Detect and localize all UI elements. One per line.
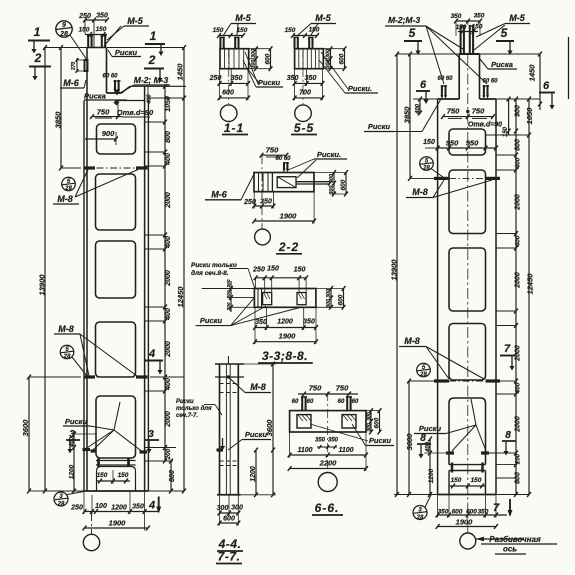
dimension 600 below 1-1 <box>220 97 249 99</box>
dimension 1900 at E2 bottom <box>438 526 496 528</box>
section 3-3 8-8 body <box>254 289 316 308</box>
svg-text:370: 370 <box>71 62 77 71</box>
dimension 750 to hole in E1 <box>92 116 122 118</box>
leader lines from lower M-8 to E2 riska level 2 <box>426 347 449 380</box>
svg-text:150: 150 <box>237 27 248 34</box>
anchor bolts M-2 M-3 on E2 right shoulder <box>483 85 485 97</box>
anchor stubs above section 6-6 right <box>346 396 348 411</box>
svg-text:400: 400 <box>70 436 76 448</box>
left extension lines of 3-3 <box>202 288 255 290</box>
dimension 350 350 above E2 <box>456 20 480 22</box>
svg-text:1: 1 <box>34 25 41 39</box>
svg-text:300: 300 <box>251 49 257 58</box>
svg-text:7: 7 <box>493 502 500 514</box>
svg-text:1100: 1100 <box>297 447 312 454</box>
svg-text:М-8: М-8 <box>250 382 266 392</box>
svg-text:300: 300 <box>367 423 373 432</box>
svg-text:700: 700 <box>299 90 311 97</box>
svg-text:28: 28 <box>419 372 427 378</box>
hatch of cut concrete in 3-3 <box>257 289 259 308</box>
svg-text:5: 5 <box>409 26 416 40</box>
axis tick above 4-4 top <box>227 356 229 364</box>
hole 1 in E2 <box>449 129 486 155</box>
svg-text:60: 60 <box>307 399 314 405</box>
svg-text:7: 7 <box>504 343 511 355</box>
dimension 750 on section 2-2 <box>262 154 287 156</box>
svg-text:300: 300 <box>329 174 335 183</box>
hole 5 in E2 <box>449 398 486 465</box>
svg-text:400: 400 <box>165 153 172 166</box>
section 1-1 body <box>220 49 249 69</box>
dimension line 3850 for E1 <box>60 48 62 169</box>
svg-text:28: 28 <box>64 186 72 192</box>
svg-text:200: 200 <box>165 448 172 460</box>
left column E1 outline (elevation) <box>87 47 107 49</box>
svg-text:600: 600 <box>338 294 345 305</box>
dimension 250 350 at E1 top <box>85 19 107 21</box>
dimensions 300 300 600 right of 1-1 <box>255 49 257 69</box>
svg-text:3600: 3600 <box>405 433 414 451</box>
hole 4 in E2 <box>449 324 486 381</box>
reference bubble 5/28 upper E2 <box>420 157 434 171</box>
riska level 1 marks on E2 <box>434 177 449 180</box>
hole 1 in E1 <box>97 124 136 154</box>
svg-text:М-5: М-5 <box>315 13 331 23</box>
dimension 350 1200 350 below 3-3 <box>255 327 316 329</box>
svg-text:1200: 1200 <box>428 468 435 483</box>
svg-text:300: 300 <box>367 412 373 421</box>
dimensions 300 300 600 right of 6-6 <box>370 411 372 432</box>
svg-text:12450: 12450 <box>526 273 535 295</box>
hole 4 in E1 <box>96 322 136 377</box>
svg-text:400: 400 <box>165 236 172 249</box>
svg-text:5: 5 <box>501 26 508 40</box>
riska marks at bottom of E1 branches <box>83 448 91 451</box>
embedded channel M-6 in section 2-2 <box>277 177 296 188</box>
svg-text:сеч.7-7.: сеч.7-7. <box>176 413 198 419</box>
svg-text:300: 300 <box>326 289 332 298</box>
riska diamond mark on E1 console <box>114 89 120 95</box>
svg-text:8: 8 <box>505 430 511 441</box>
svg-text:2000: 2000 <box>515 272 522 289</box>
svg-text:600: 600 <box>374 417 381 428</box>
dimension 150 150 between E2 branches <box>449 485 486 487</box>
svg-text:250: 250 <box>78 13 91 20</box>
section 5-5 body <box>295 49 324 69</box>
svg-text:600: 600 <box>223 516 235 523</box>
svg-text:950: 950 <box>446 139 459 148</box>
riska marks at bottom of E2 branches <box>446 451 454 454</box>
dashed lines near bottom of 4-4 <box>220 460 239 462</box>
svg-text:М-8: М-8 <box>412 187 428 197</box>
svg-text:1450: 1450 <box>176 63 185 81</box>
svg-text:300: 300 <box>326 299 332 308</box>
anchor stubs M-5 on E1 top <box>87 35 89 48</box>
svg-text:750: 750 <box>266 146 279 155</box>
svg-text:300: 300 <box>251 60 257 69</box>
hole 5 in E1 <box>96 396 136 458</box>
anchor box left in section 3-3 <box>263 293 272 305</box>
svg-text:2000: 2000 <box>515 194 522 211</box>
svg-text:60 60: 60 60 <box>482 79 498 85</box>
svg-text:350: 350 <box>287 75 299 82</box>
dimension 150 150 between E1 branches <box>96 480 130 482</box>
hole 3 in E2 <box>449 248 486 311</box>
leader fan to bottom riska marks of E2 <box>446 425 476 434</box>
extension lines right of E2 <box>496 98 540 100</box>
svg-text:750: 750 <box>472 107 485 116</box>
svg-text:300: 300 <box>326 49 332 58</box>
svg-text:150: 150 <box>309 27 320 34</box>
svg-text:150: 150 <box>267 266 279 273</box>
anchor box right in section 3-3 <box>297 293 306 305</box>
svg-text:1450: 1450 <box>528 64 537 82</box>
dimension line 1050 12450 for E2 <box>528 99 530 495</box>
reference bubble 9/28 <box>56 21 72 37</box>
dimension 3600 right of 4-4 <box>272 364 274 495</box>
svg-text:2000: 2000 <box>515 416 522 433</box>
svg-text:400: 400 <box>426 441 432 453</box>
hole d=90 mark in E1 <box>114 100 120 106</box>
svg-text:3850: 3850 <box>54 111 63 129</box>
dimension 600 below 4-4 <box>220 522 239 524</box>
dimension 150 150 at E1 top <box>85 34 107 36</box>
svg-text:350: 350 <box>474 13 485 20</box>
svg-text:250: 250 <box>252 267 265 274</box>
svg-text:150: 150 <box>451 477 462 484</box>
svg-text:400: 400 <box>165 378 172 391</box>
svg-text:600: 600 <box>466 509 477 516</box>
svg-text:2000: 2000 <box>165 192 172 209</box>
dimension line 1450 for E2 <box>539 54 541 110</box>
svg-text:250: 250 <box>70 505 83 512</box>
dimension 400 1200 at E2 bottom left <box>429 439 431 495</box>
svg-text:Риски: Риски <box>65 417 88 426</box>
anchor box right in section 6-6 <box>342 415 356 428</box>
bottom web lines of E1 <box>96 460 136 462</box>
reference bubble 5/28 upper E1 <box>62 177 76 191</box>
svg-text:300: 300 <box>326 60 332 69</box>
anchor box left in section 6-6 <box>297 415 311 428</box>
svg-text:1200: 1200 <box>69 464 76 479</box>
riska level 2 marks on E2 <box>434 379 449 382</box>
svg-text:М-8: М-8 <box>57 194 73 204</box>
dimension line 1450 12450 for E1 <box>183 48 185 492</box>
svg-text:1: 1 <box>150 29 157 43</box>
dimension 150 150 on section 1-1 <box>219 35 243 37</box>
reference bubble 5/28 lower E1 <box>60 345 74 359</box>
right column E2 outline (elevation) <box>459 53 479 55</box>
dimension 1900 at E1 bottom <box>84 527 148 529</box>
svg-text:60: 60 <box>292 399 299 405</box>
svg-text:9: 9 <box>62 22 66 29</box>
svg-text:200: 200 <box>516 453 522 465</box>
section 6-6 body <box>290 411 366 432</box>
svg-text:М-5: М-5 <box>235 13 251 23</box>
dimension 1200 right of 4-4 <box>255 450 257 495</box>
dimension 250 350 below 2-2 <box>254 205 273 207</box>
svg-text:600: 600 <box>452 509 463 516</box>
svg-text:М-8: М-8 <box>404 336 420 346</box>
hole 3 in E1 <box>96 241 136 298</box>
svg-text:350: 350 <box>255 319 267 326</box>
svg-text:60 60: 60 60 <box>102 74 118 80</box>
dimension 400 at E2 left shoulder <box>419 99 421 113</box>
svg-text:М-6: М-6 <box>63 78 79 88</box>
dimension row 250 100 1200 350 at E1 bottom <box>84 511 158 513</box>
svg-text:Разбивочная: Разбивочная <box>489 535 541 544</box>
reference bubble 3/28 at E1 bottom <box>54 492 68 506</box>
svg-text:300: 300 <box>217 505 229 512</box>
label Razbivochnaya os <box>476 538 524 540</box>
dimension row 350 600 600 350 at E2 bottom <box>438 514 507 516</box>
svg-text:Риски: Риски <box>419 424 442 433</box>
svg-text:4: 4 <box>148 500 155 512</box>
svg-text:1900: 1900 <box>279 332 297 341</box>
svg-text:60 60: 60 60 <box>437 76 453 82</box>
svg-text:350: 350 <box>451 13 462 20</box>
reference bubble 3/28 at E2 bottom <box>413 506 427 520</box>
svg-text:1900: 1900 <box>280 212 298 221</box>
svg-text:150: 150 <box>79 27 90 34</box>
svg-text:400: 400 <box>515 382 522 394</box>
svg-text:300: 300 <box>231 505 243 512</box>
svg-text:М-5: М-5 <box>127 16 143 26</box>
riska mark on column 4-4 <box>217 448 224 451</box>
dimension 800 at E1 bottom right <box>170 461 172 491</box>
svg-text:750: 750 <box>336 384 349 393</box>
right dimension chain of E1 <box>164 86 166 461</box>
svg-text:2000: 2000 <box>165 341 172 358</box>
axis line of section 2-2 <box>261 155 263 229</box>
svg-text:4: 4 <box>148 348 155 360</box>
dimension 750 750 above 6-6 <box>298 393 358 395</box>
svg-text:28: 28 <box>416 515 424 521</box>
dimension 370 300 at M-6 plate <box>76 58 78 72</box>
dimension 150 950 950 150 in E2 <box>438 147 496 149</box>
svg-text:Риска: Риска <box>84 92 106 101</box>
anchor stubs above section 6-6 left <box>301 396 303 411</box>
svg-text:400: 400 <box>515 157 522 169</box>
svg-text:6: 6 <box>420 79 427 91</box>
svg-text:750: 750 <box>447 107 460 116</box>
svg-text:2: 2 <box>34 51 42 65</box>
svg-text:ось: ось <box>503 545 517 554</box>
svg-text:950: 950 <box>466 139 479 148</box>
dimension 300 300 below 4-4 <box>220 512 239 514</box>
right dimension chain of E2 <box>515 99 517 495</box>
svg-text:М-6: М-6 <box>211 190 227 200</box>
svg-text:900: 900 <box>102 129 115 138</box>
svg-text:600: 600 <box>222 90 234 97</box>
left dimensions 300 200 of 3-3 <box>230 281 232 312</box>
axis circle of E1 <box>83 534 99 550</box>
svg-text:Риски: Риски <box>200 316 223 325</box>
svg-text:800: 800 <box>515 139 522 151</box>
dimension 700 below 5-5 <box>295 97 323 99</box>
svg-text:150: 150 <box>471 477 482 484</box>
svg-text:Риски.: Риски. <box>317 150 341 159</box>
svg-text:350: 350 <box>260 199 272 206</box>
leader lines M-2 M-3 to shoulder bolts of E2 <box>426 26 444 84</box>
hole 6 at E1 bottom <box>97 467 136 492</box>
svg-text:800: 800 <box>165 131 172 143</box>
dimension 400 and 1200 at E1 bottom <box>73 434 75 491</box>
svg-text:150: 150 <box>472 24 483 31</box>
leader fan from Riski to 3-3 anchors <box>231 298 255 326</box>
svg-text:1900: 1900 <box>109 519 127 528</box>
svg-text:1200: 1200 <box>111 505 127 512</box>
dimensions 300 300 600 right of 5-5 <box>330 49 332 69</box>
axis centerline of E2 <box>467 54 469 533</box>
svg-text:2000: 2000 <box>515 345 522 362</box>
hole 2 in E1 <box>96 174 136 230</box>
svg-text:350: 350 <box>231 75 243 82</box>
svg-text:350: 350 <box>303 319 315 326</box>
svg-text:350: 350 <box>96 13 108 20</box>
svg-text:350: 350 <box>315 438 326 444</box>
svg-text:1050: 1050 <box>165 96 172 112</box>
svg-text:350: 350 <box>132 504 144 511</box>
svg-text:1200: 1200 <box>277 319 293 326</box>
svg-text:28: 28 <box>422 166 430 172</box>
axis circle of section 1-1 <box>220 105 237 122</box>
svg-text:150: 150 <box>285 27 296 34</box>
dimension line 13900 for E1 <box>44 48 46 492</box>
svg-text:Отв.d=90: Отв.d=90 <box>117 108 154 117</box>
svg-text:800: 800 <box>169 470 176 482</box>
svg-text:150: 150 <box>118 472 129 479</box>
svg-text:200: 200 <box>226 290 232 299</box>
svg-text:28: 28 <box>57 502 65 508</box>
dimension 350 350 below 5-5 <box>295 82 323 84</box>
svg-text:150: 150 <box>96 26 107 33</box>
leader lines from M-8 to E2 riska level 1 <box>433 180 444 198</box>
svg-text:2000: 2000 <box>165 411 172 428</box>
svg-text:2: 2 <box>148 53 156 67</box>
svg-text:только для: только для <box>176 406 212 412</box>
svg-text:Риски.: Риски. <box>348 84 372 93</box>
svg-text:7-7.: 7-7. <box>218 550 241 564</box>
leader lines from lower M-8 to riska level 2 <box>80 334 89 376</box>
svg-text:2000: 2000 <box>165 270 172 287</box>
svg-text:150: 150 <box>294 267 306 274</box>
dimension 250 150 150 above 3-3 <box>256 277 307 279</box>
svg-text:600: 600 <box>339 53 346 64</box>
anchor stubs M-5 in section 1-1 <box>219 37 221 49</box>
svg-text:6: 6 <box>543 80 550 92</box>
hole d=90 mark in E2 <box>466 110 469 113</box>
svg-text:28: 28 <box>63 354 71 360</box>
svg-text:150: 150 <box>456 24 467 31</box>
svg-text:для сеч.8-8.: для сеч.8-8. <box>191 269 229 277</box>
anchor stubs M-5 in section 5-5 <box>293 37 295 49</box>
svg-text:28: 28 <box>59 31 68 38</box>
svg-text:1100: 1100 <box>338 447 353 454</box>
svg-text:3850: 3850 <box>403 106 412 124</box>
svg-text:1900: 1900 <box>456 518 474 527</box>
svg-text:М-5: М-5 <box>509 13 525 23</box>
svg-text:13900: 13900 <box>390 259 399 281</box>
svg-text:150: 150 <box>213 27 224 34</box>
svg-text:900: 900 <box>515 105 522 117</box>
svg-text:М-8: М-8 <box>58 324 74 334</box>
svg-text:750: 750 <box>97 108 110 117</box>
embedded plate M-6 on E1 edge <box>85 60 88 71</box>
svg-text:Риски: Риски <box>368 122 391 131</box>
svg-text:100: 100 <box>95 503 107 510</box>
anchor stubs M-5 on E2 top <box>460 25 462 54</box>
svg-text:200: 200 <box>226 302 232 311</box>
dimensions 300 300 600 right of 2-2 <box>333 173 335 195</box>
dimension 1900 below 2-2 <box>254 220 314 222</box>
svg-text:350: 350 <box>328 438 339 444</box>
anchor bolts M-2 M-3 on E1 console <box>114 80 116 91</box>
svg-text:400: 400 <box>515 235 522 247</box>
dimension 3600 at E1 bottom left <box>28 377 30 491</box>
svg-text:60: 60 <box>338 399 345 405</box>
dimension 2200 below 6-6 <box>290 468 366 470</box>
svg-text:1050: 1050 <box>525 107 534 125</box>
svg-text:150: 150 <box>97 472 108 479</box>
svg-text:300: 300 <box>329 186 335 195</box>
anchor rod in section 2-2 <box>296 181 330 183</box>
svg-text:400: 400 <box>165 308 172 321</box>
dimension line 900 right of E2 <box>508 99 510 135</box>
svg-text:12450: 12450 <box>176 286 185 308</box>
svg-text:3-3;8-8.: 3-3;8-8. <box>262 349 308 363</box>
anchor bolts M-2 M-3 on E2 left shoulder <box>441 85 443 97</box>
top level extension line of E1 <box>44 47 87 49</box>
svg-text:400: 400 <box>147 94 153 104</box>
dimension 1900 below 3-3 <box>255 341 316 343</box>
axis circle of E2 <box>460 533 476 549</box>
dimension 150 150 on section 5-5 <box>293 35 317 37</box>
svg-text:М-2; М-3: М-2; М-3 <box>134 75 169 85</box>
bottom web lines of E2 <box>449 464 486 466</box>
dimension 150 150 above E2 <box>458 31 478 33</box>
svg-text:2-2: 2-2 <box>278 240 299 254</box>
svg-text:3600: 3600 <box>265 419 274 437</box>
svg-text:М-2;М-3: М-2;М-3 <box>388 15 420 25</box>
svg-text:350: 350 <box>478 509 489 516</box>
extension lines right E1 <box>130 85 186 87</box>
hole 2 in E2 <box>449 170 486 234</box>
svg-text:Риски: Риски <box>369 436 392 445</box>
riska level 2 marks on E1 <box>84 375 95 378</box>
svg-text:600: 600 <box>265 53 272 64</box>
riska level 1 marks on E1 <box>84 166 95 169</box>
svg-text:60: 60 <box>352 399 359 405</box>
dimensions 300 600 right of 3-3 <box>330 289 332 308</box>
reference bubble 5/28 lower E2 <box>417 363 431 377</box>
svg-text:Отв.d=90: Отв.d=90 <box>468 122 502 129</box>
svg-text:6-6.: 6-6. <box>315 501 340 515</box>
svg-text:Риски: Риски <box>176 399 194 405</box>
svg-text:5-5: 5-5 <box>294 121 314 135</box>
dimension line 3850 for E2 <box>409 54 411 178</box>
axis circle of section 5-5 <box>295 105 312 122</box>
svg-text:350: 350 <box>438 509 449 516</box>
dimension 250 350 below 1-1 <box>220 82 249 84</box>
M-8 level line on 4-4 <box>215 376 244 378</box>
svg-text:300: 300 <box>226 279 232 287</box>
leader lines from M-8 to riska level 1 <box>75 170 88 198</box>
leader fan to bottom riska marks of E1 <box>90 426 114 430</box>
svg-text:600: 600 <box>340 179 347 190</box>
svg-text:Риска: Риска <box>491 60 513 69</box>
axis line and circle of section 6-6 <box>327 392 329 471</box>
